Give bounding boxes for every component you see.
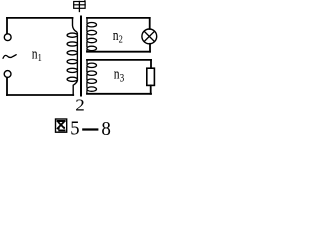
caption dash — [82, 128, 98, 130]
lamp cross stroke 1 — [144, 32, 154, 42]
AC source terminal bottom — [4, 71, 11, 78]
wire n3 bottom — [87, 93, 151, 95]
wire primary left upper — [6, 18, 8, 33]
primary winding n1 lead-out — [73, 80, 77, 95]
svg-text:8: 8 — [101, 119, 110, 141]
AC source symbol ~ — [3, 55, 16, 59]
wire n3 top — [87, 59, 151, 61]
secondary winding n2 lead — [86, 18, 88, 23]
caption 图 glyph — [56, 119, 67, 132]
secondary winding n3 lead — [86, 60, 88, 64]
primary winding n1 coil loops — [67, 33, 77, 81]
secondary winding n2 coil loops — [87, 23, 97, 52]
lamp — [142, 29, 157, 44]
wire primary top — [7, 17, 73, 19]
wire n2 lamp bottom stub — [149, 44, 151, 52]
svg-text:5: 5 — [70, 118, 79, 140]
iron core — [80, 17, 82, 96]
wire n2 right stub to lamp — [149, 18, 151, 29]
secondary winding n3 coil loops — [87, 63, 97, 94]
wire n2 bottom — [87, 51, 150, 53]
wire primary bottom — [7, 94, 73, 96]
AC source terminal top — [4, 34, 11, 41]
label 甲 (core marker) — [74, 0, 85, 11]
lamp cross stroke 2 — [144, 32, 154, 42]
svg-text:2: 2 — [75, 96, 85, 115]
wire primary left lower — [6, 78, 8, 95]
wire n2 top — [87, 17, 150, 19]
resistor R — [147, 68, 155, 85]
primary winding n1 lead-in — [73, 18, 78, 34]
wire n3 resistor bottom stub — [150, 85, 152, 93]
wire n3 right stub to resistor — [150, 60, 152, 68]
